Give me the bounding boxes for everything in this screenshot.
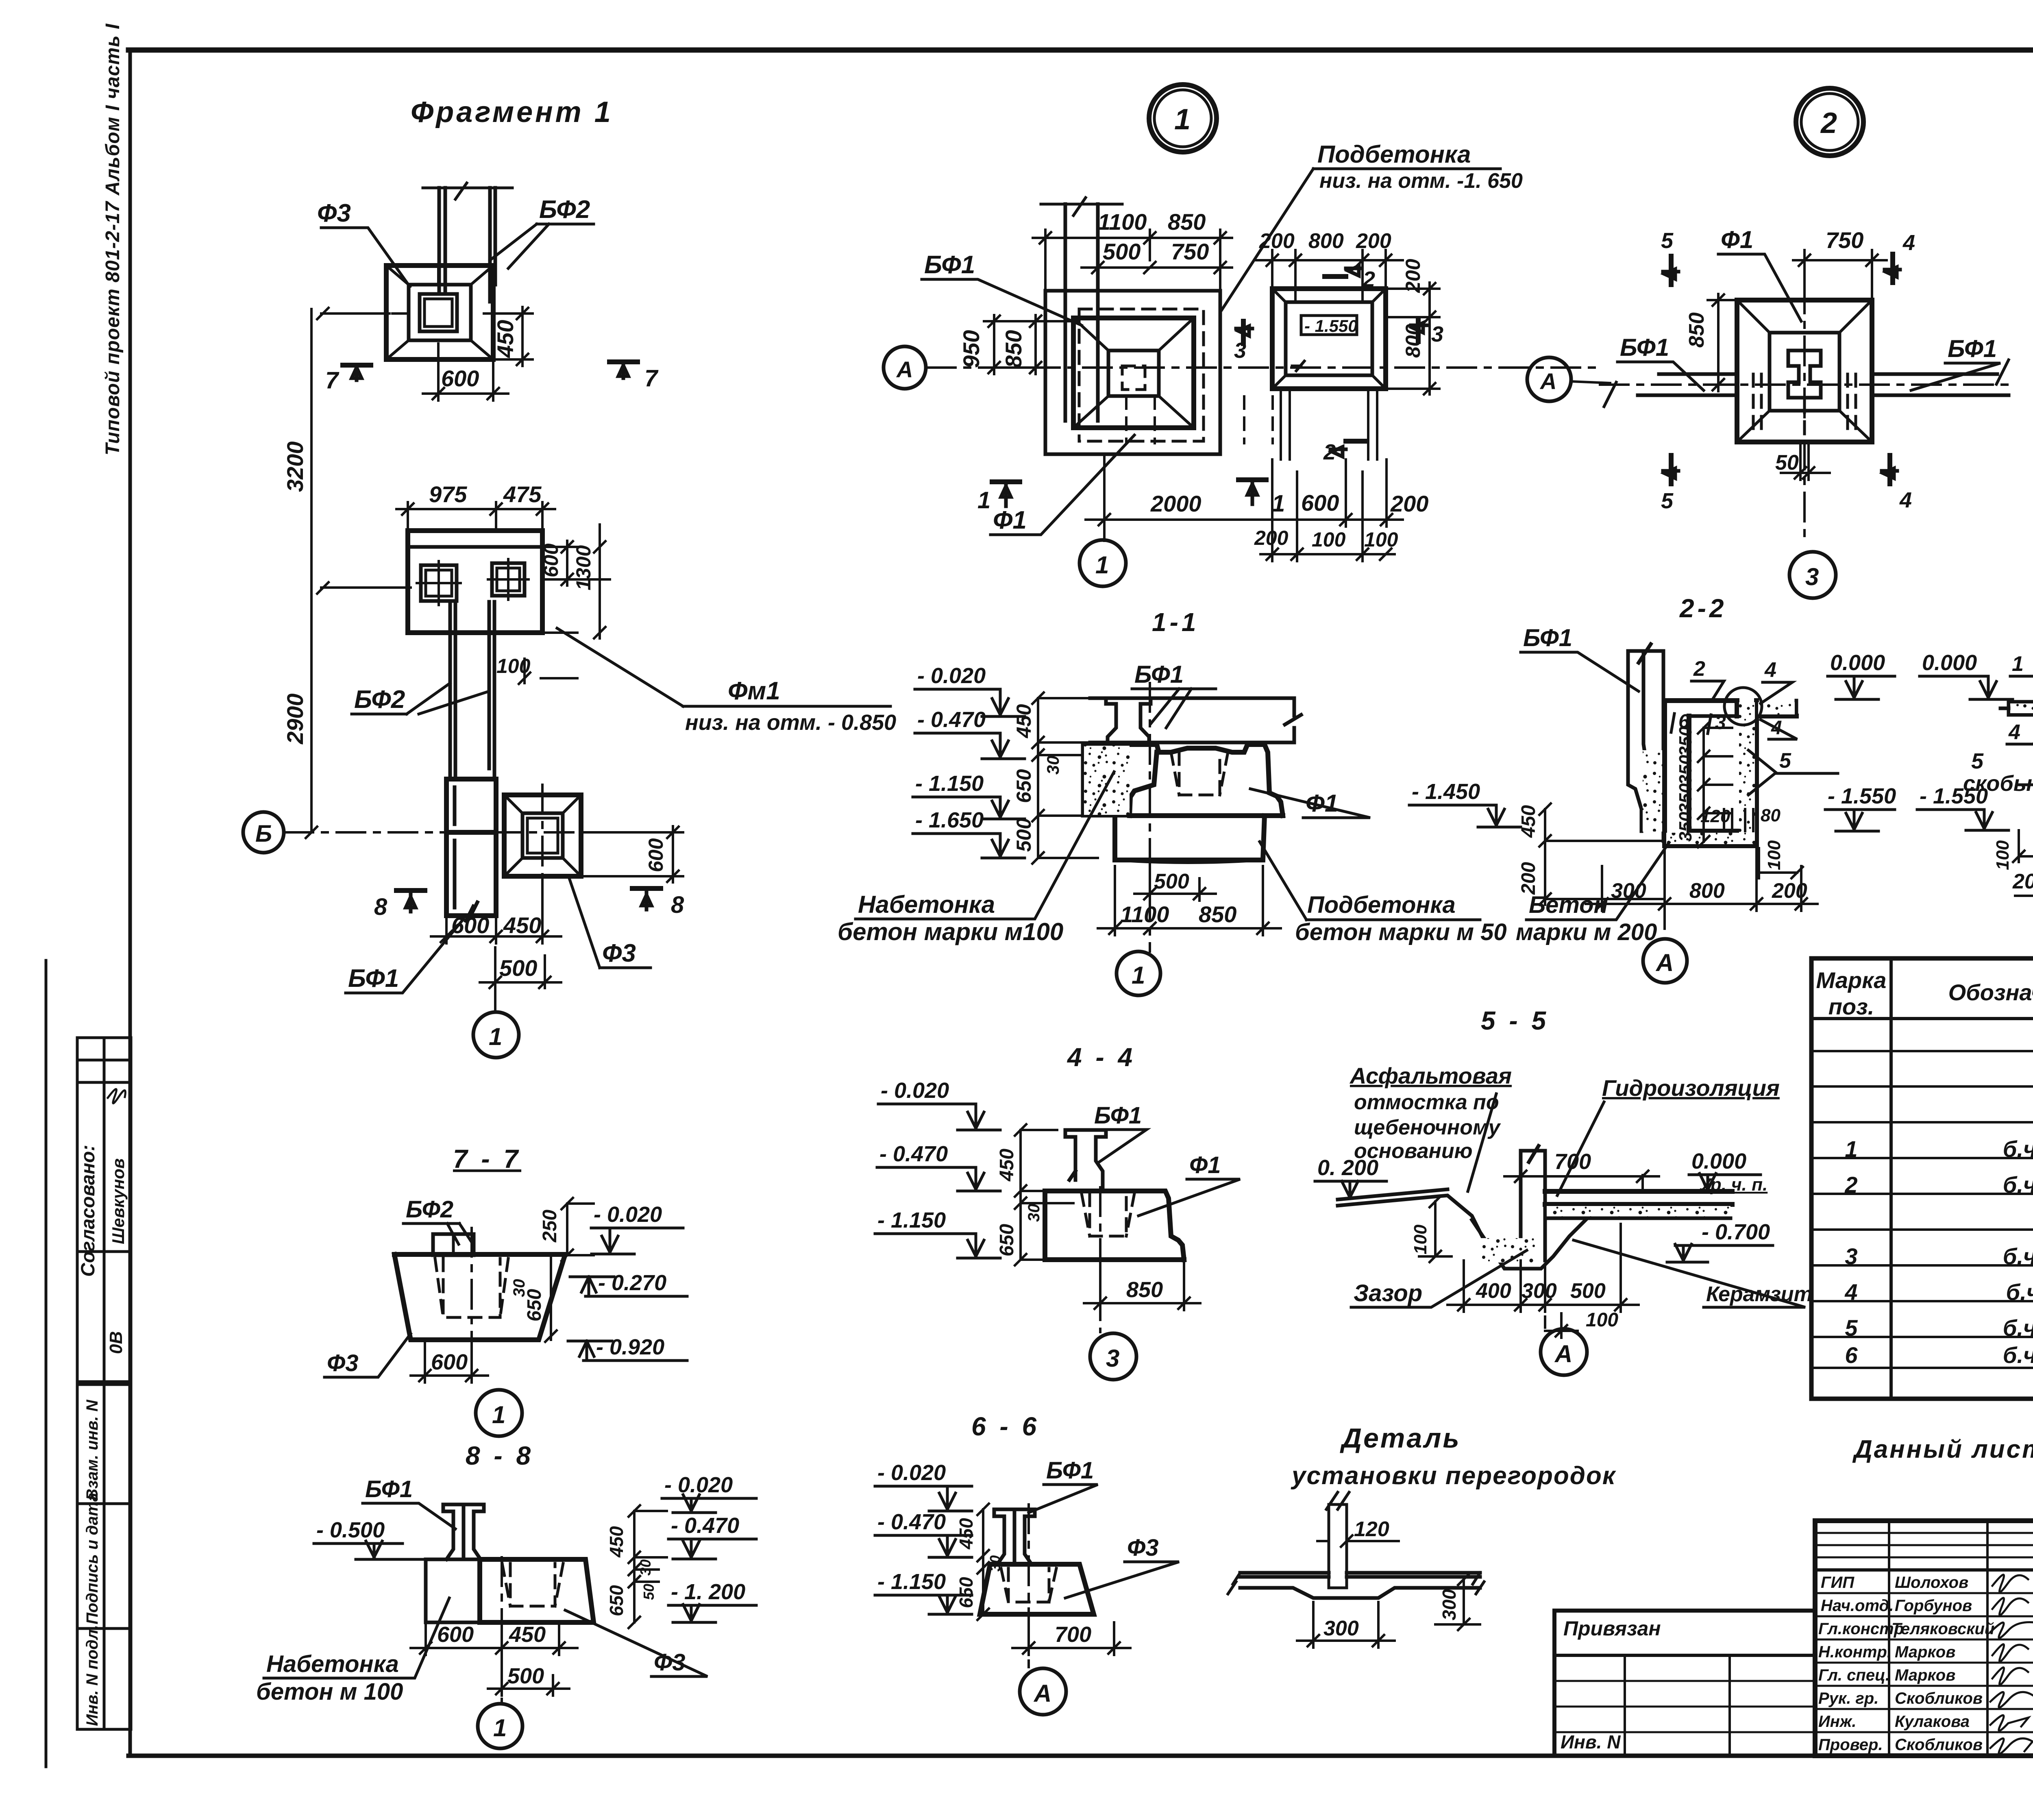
svg-text:Бетон: Бетон xyxy=(1529,892,1608,918)
svg-text:450: 450 xyxy=(492,320,518,358)
brick partition strip xyxy=(1329,1504,1347,1588)
bottom dims 300 800 200 xyxy=(1586,848,1818,911)
svg-text:- 0.020: - 0.020 xyxy=(594,1202,662,1227)
svg-text:Ф3: Ф3 xyxy=(317,199,351,227)
svg-text:500: 500 xyxy=(1012,818,1035,852)
nabetonka block xyxy=(426,1559,480,1622)
wall lines from pit going down xyxy=(1281,391,1377,459)
svg-text:Взам. инв. N: Взам. инв. N xyxy=(83,1400,101,1500)
svg-text:Обозначение: Обозначение xyxy=(1948,980,2033,1005)
svg-text:5 - 5: 5 - 5 xyxy=(1481,1006,1549,1035)
dim stack 450 30 650 xyxy=(977,1504,989,1620)
svg-text:100: 100 xyxy=(1586,1309,1618,1331)
svg-text:4: 4 xyxy=(1899,488,1912,512)
svg-text:750: 750 xyxy=(1171,239,1209,264)
trapezoid foundation xyxy=(394,1254,565,1340)
dims 250 30 650 xyxy=(562,1198,594,1261)
vertical dim stack xyxy=(1032,692,1098,864)
svg-text:поз.: поз. xyxy=(1828,994,1874,1019)
svg-text:- 1.150: - 1.150 xyxy=(877,1570,946,1594)
pit walls xyxy=(1665,701,1796,846)
dim 100 left below xyxy=(2013,830,2033,862)
svg-text:А: А xyxy=(896,357,913,382)
svg-text:450: 450 xyxy=(996,1149,1018,1182)
svg-text:650: 650 xyxy=(956,1577,977,1608)
svg-text:30: 30 xyxy=(510,1279,528,1298)
svg-text:2: 2 xyxy=(1820,107,1837,139)
svg-text:- 0.470: - 0.470 xyxy=(879,1142,948,1166)
right subplan: pit -1.550 xyxy=(1272,289,1386,389)
svg-text:БФ1: БФ1 xyxy=(365,1476,413,1502)
svg-text:6: 6 xyxy=(1678,711,1689,732)
svg-text:4: 4 xyxy=(1764,658,1776,682)
svg-text:50: 50 xyxy=(640,1584,657,1600)
plan C: БФ1 walls + Ф3 xyxy=(243,779,684,1058)
svg-text:2: 2 xyxy=(1844,1172,1857,1197)
svg-text:бетон марки м100: бетон марки м100 xyxy=(838,918,1063,945)
svg-text:БФ2: БФ2 xyxy=(354,686,405,714)
svg-text:200: 200 xyxy=(1518,862,1539,895)
dim 600 right xyxy=(583,826,683,882)
svg-text:- 0.470: - 0.470 xyxy=(917,708,986,732)
svg-text:975: 975 xyxy=(429,481,467,507)
svg-text:Б: Б xyxy=(255,821,272,847)
svg-text:- 1.650: - 1.650 xyxy=(915,808,984,832)
svg-text:5: 5 xyxy=(1845,1315,1858,1341)
columns БФ2 between plans xyxy=(352,602,896,779)
plan B: foundation Фм1 with two columns xyxy=(396,481,610,684)
svg-text:А: А xyxy=(1539,368,1556,394)
svg-text:8 - 8: 8 - 8 xyxy=(466,1441,534,1470)
axis circle 1 below xyxy=(494,988,496,1012)
svg-text:950: 950 xyxy=(958,330,984,368)
axis dash-dot xyxy=(1600,285,2009,541)
svg-text:Скобликов: Скобликов xyxy=(1895,1689,1983,1707)
svg-text:Ф1: Ф1 xyxy=(1189,1152,1221,1178)
panel cross-section at left of band xyxy=(1106,698,1151,742)
svg-text:бетон м 100: бетон м 100 xyxy=(256,1678,403,1705)
svg-text:- 0.500: - 0.500 xyxy=(316,1518,385,1542)
svg-text:100: 100 xyxy=(1312,528,1346,551)
dim 600 below xyxy=(423,362,508,401)
svg-text:Инж.: Инж. xyxy=(1818,1713,1857,1731)
section marks 3 xyxy=(1243,319,1418,344)
svg-text:3: 3 xyxy=(1106,1345,1119,1372)
svg-text:100: 100 xyxy=(1993,840,2013,870)
Привязан block xyxy=(1554,1611,1815,1756)
Ф1 body xyxy=(1045,1191,1184,1260)
dims right: 600 1300 100 xyxy=(545,525,610,638)
two column squares xyxy=(421,565,457,601)
svg-text:Подпись и дата: Подпись и дата xyxy=(83,1493,101,1624)
svg-text:Подбетонка: Подбетонка xyxy=(1307,892,1456,918)
svg-text:бетон марки м 50: бетон марки м 50 xyxy=(1295,919,1507,945)
Ф3 trapezoid xyxy=(980,1564,1094,1614)
svg-text:0В: 0В xyxy=(106,1331,126,1354)
svg-text:300: 300 xyxy=(1323,1617,1359,1640)
svg-text:475: 475 xyxy=(503,481,542,507)
svg-text:5: 5 xyxy=(1661,489,1674,513)
svg-text:Марка: Марка xyxy=(1816,967,1887,993)
axis xyxy=(1099,1187,1101,1332)
svg-text:0.000: 0.000 xyxy=(1830,651,1885,675)
svg-text:450: 450 xyxy=(956,1518,977,1550)
svg-text:А: А xyxy=(1554,1340,1572,1367)
svg-text:600: 600 xyxy=(441,366,479,391)
svg-text:Фрагмент 1: Фрагмент 1 xyxy=(411,96,613,128)
svg-text:БФ1: БФ1 xyxy=(1046,1457,1094,1484)
svg-text:Рук. гр.: Рук. гр. xyxy=(1818,1689,1878,1707)
svg-text:650: 650 xyxy=(606,1585,627,1616)
svg-text:1: 1 xyxy=(1272,490,1285,517)
svg-text:100: 100 xyxy=(1364,528,1398,551)
svg-text:- 1.150: - 1.150 xyxy=(877,1208,946,1232)
svg-text:Зазор: Зазор xyxy=(1354,1280,1422,1306)
svg-text:Теляковский: Теляковский xyxy=(1892,1620,1994,1638)
dims right of pit: 200 800 xyxy=(1388,283,1439,394)
svg-text:2-2: 2-2 xyxy=(1679,594,1727,623)
svg-text:1: 1 xyxy=(1132,962,1145,989)
svg-text:Типовой проект 801-2-17 А: Типовой проект 801-2-17 Альбом I часть I xyxy=(102,23,124,455)
svg-text:700: 700 xyxy=(1055,1622,1091,1647)
svg-text:1: 1 xyxy=(1095,551,1109,579)
svg-text:б.ч: б.ч xyxy=(2006,1279,2033,1305)
svg-text:800: 800 xyxy=(1308,229,1344,253)
svg-text:- 1.550: - 1.550 xyxy=(1828,784,1896,808)
svg-text:450: 450 xyxy=(1012,704,1035,738)
svg-text:0.000: 0.000 xyxy=(1922,651,1977,675)
column jog at top xyxy=(1065,204,1098,421)
svg-text:б.ч.: б.ч. xyxy=(2003,1315,2033,1341)
svg-text:0. 200: 0. 200 xyxy=(1317,1156,1378,1180)
svg-text:А: А xyxy=(1655,949,1674,976)
dim 850 xyxy=(1084,1263,1200,1310)
svg-text:800: 800 xyxy=(1689,879,1725,903)
dim 700 xyxy=(1504,1151,1659,1191)
svg-text:Гидроизоляция: Гидроизоляция xyxy=(1602,1075,1780,1101)
svg-text:3: 3 xyxy=(1805,563,1819,590)
svg-text:300: 300 xyxy=(1521,1279,1557,1303)
dims left xyxy=(984,315,1041,374)
svg-text:4: 4 xyxy=(2008,721,2020,744)
section marks 7-7 xyxy=(343,362,638,365)
svg-text:4: 4 xyxy=(1844,1279,1857,1305)
svg-text:б.ч.: б.ч. xyxy=(2003,1172,2033,1197)
svg-text:1300: 1300 xyxy=(572,545,595,590)
bottom dims 200 800 200 xyxy=(2015,846,2033,903)
svg-text:БФ1: БФ1 xyxy=(348,964,399,993)
svg-text:Набетонка: Набетонка xyxy=(266,1651,399,1677)
concrete between: speckles xyxy=(1643,750,1663,832)
dim 100 left xyxy=(1419,1196,1452,1262)
column lines БФ2 xyxy=(439,188,495,302)
svg-text:щебеночному: щебеночному xyxy=(1354,1116,1502,1139)
dim 600 bottom xyxy=(411,1342,488,1382)
svg-text:5: 5 xyxy=(1779,749,1791,773)
section marks 5 xyxy=(1669,256,1674,484)
svg-text:600: 600 xyxy=(437,1622,474,1647)
svg-text:450: 450 xyxy=(503,912,541,938)
axis circle Б xyxy=(243,812,284,853)
svg-text:200: 200 xyxy=(1254,527,1289,549)
svg-text:Деталь: Деталь xyxy=(1340,1423,1461,1454)
БФ1 wall band xyxy=(1090,698,1301,742)
svg-text:БФ1: БФ1 xyxy=(1523,624,1572,651)
svg-text:- 1.450: - 1.450 xyxy=(1412,779,1480,804)
svg-text:850: 850 xyxy=(1001,330,1026,368)
svg-text:Шевкунов: Шевкунов xyxy=(109,1158,128,1244)
svg-text:650: 650 xyxy=(1012,769,1035,803)
svg-text:500: 500 xyxy=(1154,870,1189,893)
axis xyxy=(1027,1504,1030,1667)
svg-text:Ф1: Ф1 xyxy=(993,506,1027,534)
weld circle xyxy=(1724,688,1762,725)
svg-text:600: 600 xyxy=(1301,490,1339,516)
drawing xyxy=(1338,1189,1521,1256)
svg-text:Привязан: Привязан xyxy=(1563,1617,1661,1640)
dim 120 xyxy=(1317,1535,1399,1547)
svg-text:1: 1 xyxy=(977,487,990,514)
svg-text:БФ1: БФ1 xyxy=(1134,661,1184,688)
plan: nested squares xyxy=(1045,291,1220,454)
dims 600 450 below xyxy=(431,878,561,943)
svg-text:марки м 200: марки м 200 xyxy=(1516,919,1657,945)
svg-text:700: 700 xyxy=(1554,1149,1591,1174)
svg-text:2900: 2900 xyxy=(282,693,308,745)
svg-text:Асфальтовая: Асфальтовая xyxy=(1349,1063,1512,1089)
svg-text:Марков: Марков xyxy=(1895,1643,1955,1661)
panel on top xyxy=(433,1234,474,1255)
foundation trapezoid xyxy=(480,1559,594,1622)
svg-text:7 - 7: 7 - 7 xyxy=(453,1144,521,1173)
dim 750 xyxy=(1793,250,1887,297)
svg-text:Нач.отд.: Нач.отд. xyxy=(1821,1597,1894,1615)
svg-text:500: 500 xyxy=(507,1664,544,1688)
svg-text:80: 80 xyxy=(1761,806,1781,825)
svg-text:50: 50 xyxy=(1775,451,1799,475)
svg-text:Ф3: Ф3 xyxy=(1127,1535,1159,1561)
sheet outer edge left lower xyxy=(45,960,48,1767)
svg-text:200: 200 xyxy=(1259,229,1295,253)
svg-text:30: 30 xyxy=(1025,1204,1043,1222)
svg-text:Подбетонка: Подбетонка xyxy=(1317,141,1471,168)
svg-text:3: 3 xyxy=(1715,712,1726,734)
svg-text:0.000: 0.000 xyxy=(1691,1149,1746,1173)
svg-text:6: 6 xyxy=(1845,1342,1858,1368)
svg-text:Набетонка: Набетонка xyxy=(858,891,995,918)
svg-text:8: 8 xyxy=(671,892,684,918)
svg-text:2: 2 xyxy=(1363,267,1375,292)
svg-text:- 0.270: - 0.270 xyxy=(598,1271,666,1295)
svg-text:100: 100 xyxy=(1410,1224,1430,1254)
svg-text:ГИП: ГИП xyxy=(1821,1574,1855,1591)
svg-text:1100: 1100 xyxy=(1098,209,1147,235)
svg-text:6 - 6: 6 - 6 xyxy=(971,1412,1040,1441)
axis xyxy=(1149,683,1151,951)
column panel xyxy=(1628,644,1663,841)
svg-text:Данный лист смотреть совмес: Данный лист смотреть совместно с листом … xyxy=(1852,1435,2033,1463)
bottom dims 600 450 500 xyxy=(411,1625,577,1655)
svg-text:1: 1 xyxy=(1174,103,1191,136)
floor slab xyxy=(1240,1573,1480,1577)
foundation plan Ф3 xyxy=(386,266,493,359)
svg-text:750: 750 xyxy=(1826,227,1863,253)
svg-text:3: 3 xyxy=(1431,322,1443,346)
svg-text:500: 500 xyxy=(1570,1279,1606,1303)
svg-text:100: 100 xyxy=(496,655,531,677)
svg-text:1: 1 xyxy=(493,1714,507,1742)
dim 300 bottom xyxy=(1297,1602,1395,1648)
svg-text:650: 650 xyxy=(996,1224,1018,1256)
svg-text:100: 100 xyxy=(1764,840,1784,870)
svg-text:450: 450 xyxy=(509,1622,546,1647)
svg-text:- 0.470: - 0.470 xyxy=(671,1513,739,1538)
dim 500 below xyxy=(480,947,561,988)
svg-text:Провер.: Провер. xyxy=(1818,1736,1883,1754)
svg-text:б.ч.: б.ч. xyxy=(2003,1136,2033,1162)
svg-text:200: 200 xyxy=(1402,259,1424,293)
plan: foundation xyxy=(1737,300,1872,442)
svg-text:2000: 2000 xyxy=(1150,491,1202,516)
dim 700 xyxy=(1012,1616,1130,1655)
svg-text:5: 5 xyxy=(1661,229,1674,253)
svg-text:Гл. спец.: Гл. спец. xyxy=(1818,1666,1890,1684)
dims above xyxy=(1033,230,1232,289)
svg-text:8: 8 xyxy=(374,894,387,920)
svg-text:Согласовано:: Согласовано: xyxy=(77,1145,98,1277)
svg-text:600: 600 xyxy=(431,1350,468,1374)
axis dash-dot xyxy=(285,785,659,890)
dim stack right 450 30 50 650 xyxy=(629,1505,667,1628)
svg-text:5: 5 xyxy=(1971,749,1984,773)
axis circle 1 bottom xyxy=(1103,529,1106,541)
section marks 8 xyxy=(396,888,661,890)
svg-text:Гл.констр: Гл.констр xyxy=(1818,1620,1904,1638)
svg-text:БФ2: БФ2 xyxy=(406,1196,453,1223)
svg-text:БФ1: БФ1 xyxy=(924,251,975,279)
plan A: foundation Ф3 with columns БФ2 xyxy=(317,183,659,401)
svg-text:200: 200 xyxy=(1356,229,1391,253)
svg-text:30: 30 xyxy=(637,1559,654,1576)
dims above pit: 200 800 200 xyxy=(1256,250,1403,302)
svg-text:Шолохов: Шолохов xyxy=(1895,1574,1968,1591)
svg-text:850: 850 xyxy=(1199,901,1236,927)
nabetonka block dotted xyxy=(1083,745,1130,816)
left margin vertical title text xyxy=(102,23,124,455)
interior dims 350x4 xyxy=(1698,722,1732,847)
svg-text:БФ1: БФ1 xyxy=(1620,334,1669,361)
svg-text:450: 450 xyxy=(1518,805,1539,838)
svg-text:120: 120 xyxy=(1700,806,1730,826)
svg-text:Скобликов: Скобликов xyxy=(1895,1736,1983,1754)
bottom dims 400 300 500 100 xyxy=(1447,1224,1639,1312)
svg-text:4 - 4: 4 - 4 xyxy=(1067,1043,1136,1072)
svg-text:300: 300 xyxy=(1439,1589,1460,1620)
svg-text:1: 1 xyxy=(1845,1136,1857,1162)
svg-text:350: 350 xyxy=(1676,812,1696,842)
axis xyxy=(501,1557,503,1702)
svg-text:Кулакова: Кулакова xyxy=(1895,1713,1970,1731)
svg-text:200: 200 xyxy=(1772,879,1807,903)
left vertical dims 450 200 xyxy=(1539,803,1665,905)
left margin stamp boxes (Согласовано stack) xyxy=(77,1038,131,1382)
svg-text:120: 120 xyxy=(1354,1517,1389,1541)
svg-text:600: 600 xyxy=(644,838,667,872)
svg-text:отмостка по: отмостка по xyxy=(1354,1091,1499,1114)
svg-text:Фм1: Фм1 xyxy=(728,677,780,705)
section marks 2 xyxy=(1325,276,1367,441)
axis circle xyxy=(476,1390,522,1436)
section marks 1 (below plan) xyxy=(992,480,1266,482)
svg-text:850: 850 xyxy=(1685,312,1709,348)
svg-text:- 0.700: - 0.700 xyxy=(1702,1220,1770,1244)
svg-text:450: 450 xyxy=(606,1526,627,1558)
wall lines (БФ1) left and right xyxy=(1638,374,2009,395)
svg-text:Ф1: Ф1 xyxy=(1721,226,1753,253)
dim 300 right xyxy=(1435,1574,1480,1630)
svg-text:200: 200 xyxy=(2012,870,2033,893)
axis xyxy=(1663,848,1666,935)
svg-text:1100: 1100 xyxy=(1120,901,1169,927)
svg-text:30: 30 xyxy=(1043,755,1062,775)
bottom dims 2000 600 200 xyxy=(1086,455,1403,527)
dim 850 left xyxy=(1708,294,1735,391)
svg-text:низ. на отм. -1. 650: низ. на отм. -1. 650 xyxy=(1319,169,1523,193)
axis xyxy=(1544,1265,1546,1328)
vertical dim 3200 / 2900 at left xyxy=(282,308,411,838)
svg-text:Ф3: Ф3 xyxy=(327,1350,359,1376)
svg-text:7: 7 xyxy=(325,367,340,394)
left margin lower boxes xyxy=(77,1385,131,1729)
svg-text:- 1.150: - 1.150 xyxy=(915,771,984,796)
detail circle 1 xyxy=(1149,85,1217,152)
svg-text:600: 600 xyxy=(540,543,562,577)
panel xyxy=(443,1504,484,1559)
dims above: 975 475 xyxy=(396,502,555,529)
svg-text:1-1: 1-1 xyxy=(1152,607,1199,637)
svg-text:400: 400 xyxy=(1476,1279,1511,1303)
svg-text:А: А xyxy=(1033,1680,1051,1707)
dim 450 right xyxy=(493,307,533,366)
axis A circle (detail 2) xyxy=(1527,357,1571,401)
svg-text:БФ1: БФ1 xyxy=(1948,335,1997,362)
svg-text:низ. на отм. - 0.850: низ. на отм. - 0.850 xyxy=(685,710,896,735)
svg-text:500: 500 xyxy=(1103,239,1141,264)
dim 50 below xyxy=(1781,445,1830,480)
floor slabs left/right xyxy=(2009,702,2033,715)
svg-text:500: 500 xyxy=(499,955,537,981)
bottom dims xyxy=(1134,870,1216,901)
svg-text:850: 850 xyxy=(1126,1278,1163,1302)
svg-text:2: 2 xyxy=(1323,440,1336,464)
axis circle 3 xyxy=(1789,552,1836,598)
svg-text:350: 350 xyxy=(1676,755,1696,785)
svg-text:Н.контр.: Н.контр. xyxy=(1818,1643,1892,1661)
svg-text:- 0.020: - 0.020 xyxy=(917,664,986,688)
svg-text:БФ1: БФ1 xyxy=(1094,1102,1142,1129)
svg-text:1: 1 xyxy=(2012,652,2024,676)
svg-text:1: 1 xyxy=(489,1023,502,1050)
svg-text:1: 1 xyxy=(492,1401,505,1428)
svg-text:- 0.470: - 0.470 xyxy=(877,1510,946,1534)
svg-text:3: 3 xyxy=(1845,1243,1857,1269)
dim 100 right below xyxy=(1759,848,1803,878)
svg-text:Марков: Марков xyxy=(1895,1666,1955,1684)
axis A line xyxy=(927,366,1600,369)
svg-text:- 1. 200: - 1. 200 xyxy=(671,1580,745,1604)
svg-text:Ф3: Ф3 xyxy=(602,939,636,967)
svg-text:- 0.020: - 0.020 xyxy=(881,1078,949,1103)
